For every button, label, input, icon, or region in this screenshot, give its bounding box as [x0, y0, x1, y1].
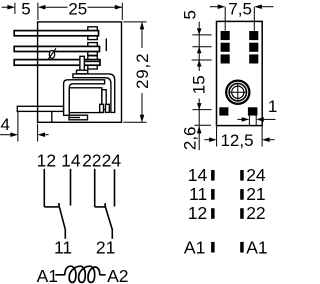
svg-text:12: 12: [188, 203, 207, 223]
dimension 1 (pin width): [238, 118, 276, 120]
contact 1 movable blade + lead 11: [59, 207, 65, 239]
svg-text:7,5: 7,5: [228, 0, 252, 18]
svg-text:12,5: 12,5: [220, 131, 253, 150]
extension line body edge: [37, 124, 39, 142]
dimension 5 (top left): [2, 3, 123, 20]
contact rivet r2a: [88, 43, 98, 47]
blade 1: [14, 31, 98, 36]
pin row4 right: [248, 107, 258, 115]
contact 2 fixed arm: [95, 206, 106, 208]
coil winding: [65, 266, 100, 282]
svg-text:24: 24: [102, 150, 122, 170]
dim line between 5 and 25: [45, 6, 68, 8]
base outline: [217, 21, 263, 125]
svg-text:11: 11: [189, 184, 207, 204]
blade 3: [14, 60, 100, 66]
dimension 12,5 bottom: [204, 126, 274, 146]
center hole rings: [226, 81, 249, 104]
svg-text:2,6: 2,6: [180, 126, 199, 150]
dimension 2,6 left (rotated): [194, 110, 211, 151]
coil lead right: [100, 274, 106, 276]
carrier line on blade 3: [84, 61, 100, 63]
wire 12: [43, 169, 45, 207]
svg-text:A1: A1: [184, 237, 205, 257]
wire dim line left of tick1: [2, 6, 10, 8]
wire 24: [114, 169, 116, 206]
svg-text:22: 22: [82, 150, 101, 170]
svg-text:4: 4: [0, 115, 9, 134]
tick extension line at x37.9: [37, 3, 39, 20]
contact rivet r1a: [88, 27, 98, 31]
coil body: [69, 88, 102, 113]
svg-text:11: 11: [54, 238, 72, 258]
svg-text:22: 22: [246, 203, 265, 223]
pin row2 left: [221, 43, 230, 52]
pin bar 12: [211, 208, 215, 219]
diameter symbol: [48, 48, 56, 59]
pin bar 22: [240, 208, 244, 219]
blade 2: [14, 46, 99, 51]
pin row1 right: [249, 31, 258, 40]
wire 14: [70, 169, 72, 206]
svg-text:24: 24: [246, 165, 266, 185]
svg-text:14: 14: [61, 150, 81, 170]
dim line right tail: [45, 134, 49, 136]
svg-text:14: 14: [188, 165, 208, 185]
pin4 side extensions: [249, 116, 256, 125]
coil terminal tab: [69, 115, 88, 120]
coil terminal blade (bottom): [17, 106, 63, 111]
bobbin flange strip (top + left flange): [64, 80, 105, 116]
bottom tick: [123, 121, 146, 123]
tick extension line at x122.3: [121, 3, 123, 20]
svg-text:A1: A1: [246, 237, 267, 257]
svg-text:5: 5: [180, 10, 199, 19]
svg-text:A2: A2: [107, 266, 128, 284]
armature post: [80, 56, 84, 70]
arrow left at tick2: [38, 5, 46, 10]
svg-text:21: 21: [96, 238, 115, 258]
yoke L-bracket: [73, 74, 115, 113]
tick extension line at x15: [14, 3, 16, 14]
arrow right at tick3: [115, 5, 123, 10]
line under bottom blade: [51, 111, 53, 122]
pin bar 11: [211, 189, 215, 200]
arrow left at x37.6: [38, 132, 46, 137]
hole cross: [229, 83, 247, 101]
svg-text:A1: A1: [37, 266, 58, 284]
extension line blade end: [17, 112, 19, 142]
coil right flange: [102, 90, 106, 110]
svg-text:29,2: 29,2: [133, 53, 152, 89]
contact rivet r2b: [88, 52, 98, 56]
pin row2 right: [249, 43, 258, 52]
arrow down: [140, 115, 145, 123]
top tick: [123, 21, 146, 23]
yoke bottom hook 2: [106, 104, 110, 112]
contact rivet r3b: [88, 65, 98, 69]
dim line right of 25 text: [88, 6, 123, 8]
dimension 4 (bottom left): [0, 112, 49, 142]
pin row4 left: [219, 107, 228, 115]
contact 1 tip: [58, 203, 60, 207]
wire 22: [94, 169, 96, 207]
pin row1 left: [221, 31, 230, 40]
contact rivet r1b: [88, 36, 98, 40]
contact 2 tip: [104, 203, 106, 207]
coil lead left: [55, 274, 64, 276]
arrow right at tick1: [7, 5, 14, 10]
arrow up: [140, 22, 145, 30]
pin row3 left: [221, 54, 230, 63]
pin bar 21: [240, 189, 244, 200]
dimension 7,5 top: [210, 7, 274, 31]
arrow right at x17.9: [10, 132, 18, 137]
armature step B: [77, 70, 88, 74]
pin bar A1 right: [240, 242, 244, 253]
pin bar 24: [240, 170, 244, 181]
svg-text:1: 1: [268, 97, 277, 116]
pin bar 14: [211, 170, 215, 181]
contact 2 movable blade + lead 21: [105, 207, 112, 239]
pin row3 right: [249, 54, 258, 63]
svg-text:15: 15: [190, 75, 209, 94]
svg-text:21: 21: [246, 184, 265, 204]
relay case outline: [38, 22, 122, 122]
dimension 5 left (rotated): [192, 22, 211, 60]
contact rivet r3a: [88, 56, 98, 60]
svg-text:25: 25: [68, 0, 87, 19]
dimension 15 left (rotated): [192, 60, 212, 110]
dim line left: [0, 134, 11, 136]
contact 1 fixed arm: [44, 206, 59, 208]
svg-text:12: 12: [37, 150, 56, 170]
spring wire: [105, 38, 107, 51]
svg-text:5: 5: [21, 0, 30, 19]
pin bar A1 left: [211, 242, 215, 253]
yoke bottom hook 1: [100, 104, 104, 112]
dim line upper segment: [141, 22, 143, 48]
dimension 29,2 (right side): [123, 22, 146, 122]
dim line lower segment: [141, 93, 143, 122]
